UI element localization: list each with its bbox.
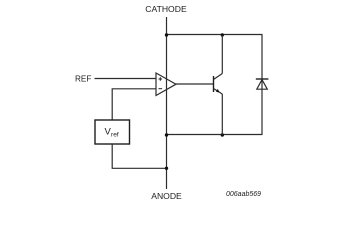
wire REF to non-inverting input — [95, 78, 157, 80]
voltage reference Vref — [95, 120, 130, 144]
node junction cathode/top-rail — [165, 33, 168, 36]
wire top rail — [166, 34, 263, 36]
svg-text:CATHODE: CATHODE — [145, 4, 187, 14]
node junction collector/top-rail — [221, 33, 224, 36]
node junction anode/bottom-rail — [165, 133, 168, 136]
svg-text:REF: REF — [75, 74, 91, 83]
wire cathode supply vertical through op-amp — [166, 35, 168, 135]
wire emitter — [221, 94, 223, 135]
svg-text:006aab569: 006aab569 — [226, 191, 261, 198]
wire cathode lead — [166, 17, 168, 35]
node junction emitter/bottom-rail — [221, 133, 224, 136]
wire diode branch — [261, 35, 263, 135]
wire anode lead — [166, 135, 168, 189]
op-amp U1 — [156, 73, 176, 96]
transistor Q1 — [214, 74, 223, 95]
wire Vref return to anode — [112, 144, 166, 168]
wire op-amp output to base — [176, 83, 214, 85]
wire collector — [221, 35, 223, 74]
node junction Vref-return/anode — [165, 167, 168, 170]
diode D1 — [256, 79, 269, 89]
wire bottom rail — [166, 134, 263, 136]
wire Vref to inverting input — [112, 89, 156, 120]
svg-text:ref: ref — [111, 132, 119, 139]
svg-text:ANODE: ANODE — [151, 191, 182, 201]
